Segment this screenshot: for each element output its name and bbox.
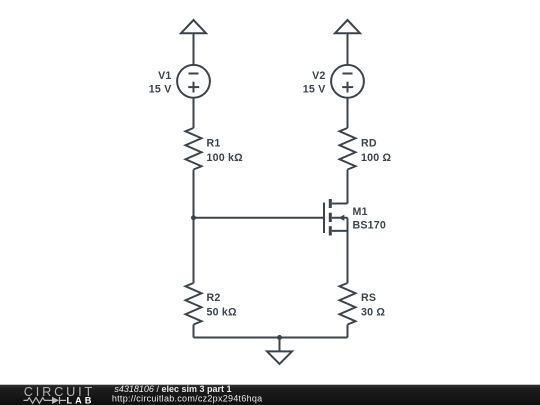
svg-text:50 kΩ: 50 kΩ xyxy=(207,307,238,319)
svg-text:LAB: LAB xyxy=(67,395,95,405)
svg-text:BS170: BS170 xyxy=(353,219,387,231)
svg-text:M1: M1 xyxy=(353,206,368,218)
svg-text:V2: V2 xyxy=(312,70,325,82)
svg-text:R2: R2 xyxy=(207,292,221,304)
svg-text:100 Ω: 100 Ω xyxy=(361,152,392,164)
svg-text:15 V: 15 V xyxy=(303,83,326,95)
svg-text:30 Ω: 30 Ω xyxy=(361,307,385,319)
svg-text:15 V: 15 V xyxy=(149,83,172,95)
svg-text:RS: RS xyxy=(361,292,376,304)
svg-text:RD: RD xyxy=(361,137,377,149)
svg-text:R1: R1 xyxy=(207,137,221,149)
svg-text:100 kΩ: 100 kΩ xyxy=(207,152,244,164)
svg-text:http://circuitlab.com/cz2px294: http://circuitlab.com/cz2px294t6hqa xyxy=(112,393,263,403)
svg-text:V1: V1 xyxy=(158,70,171,82)
